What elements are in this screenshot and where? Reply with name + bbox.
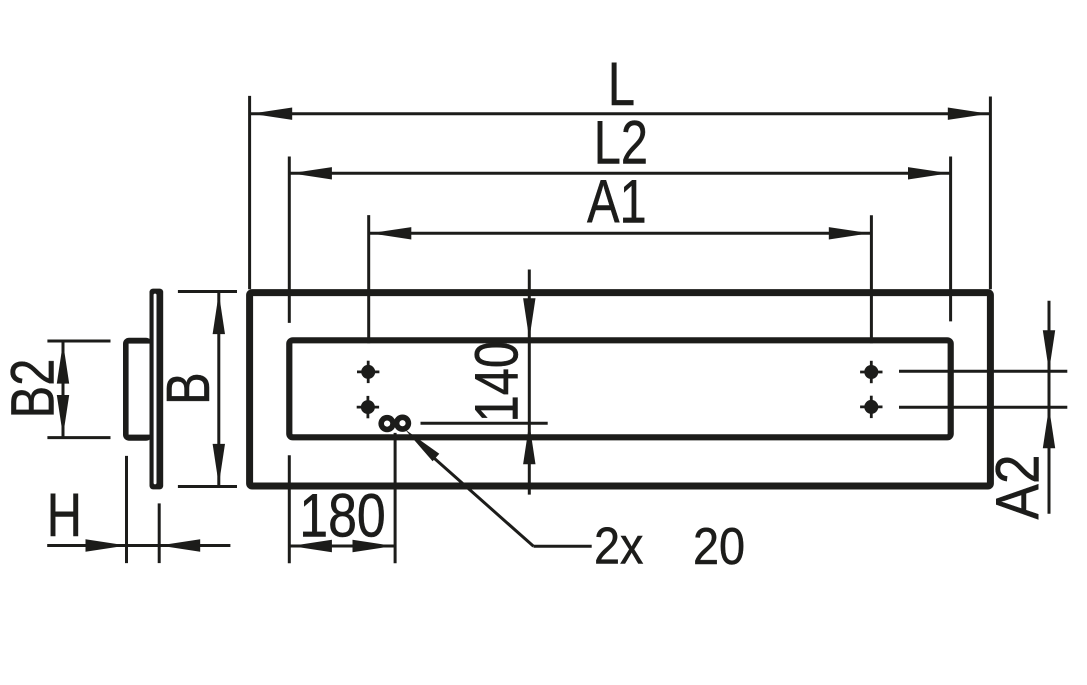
dimension A2 line: [1048, 301, 1051, 514]
dimension B extension lines: [178, 290, 237, 293]
svg-text:2x: 2x: [594, 517, 644, 575]
dimension L line: [250, 112, 991, 115]
svg-text:B2: B2: [0, 359, 67, 419]
side view housing block: [123, 338, 152, 441]
svg-text:H: H: [47, 481, 82, 549]
svg-text:B: B: [154, 372, 222, 405]
dimension 140 line: [528, 270, 531, 495]
svg-text:180: 180: [299, 481, 386, 549]
dimension B2 line: [62, 341, 65, 438]
dimension B2 extension lines: [47, 340, 110, 343]
dimension L2 extension lines: [288, 157, 291, 323]
dimension A2 extension lines: [899, 370, 1067, 373]
dimension A1 extension lines: [367, 215, 370, 343]
dimension L2 line: [289, 172, 950, 175]
svg-text:20: 20: [693, 518, 745, 576]
twin cable-entry holes: [378, 415, 395, 432]
svg-text:A1: A1: [587, 167, 647, 235]
leader line to cable holes: [405, 429, 440, 461]
dimension H line: [47, 544, 230, 547]
dimension B line: [217, 292, 220, 487]
dimension H extension lines: [125, 456, 128, 563]
front view inner cutout rectangle: [289, 340, 950, 437]
svg-text:A2: A2: [984, 455, 1052, 520]
mounting hole top-left: [357, 361, 379, 383]
dimension L extension lines: [248, 96, 251, 289]
dimension 180 extension lines: [288, 455, 291, 563]
dimension 140 extension line: [421, 422, 548, 425]
side view front panel bar: [150, 289, 164, 490]
dimension A1 line: [369, 232, 872, 235]
svg-text:140: 140: [462, 341, 530, 422]
dimension 180 line: [289, 545, 395, 548]
mounting hole bottom-right: [860, 396, 882, 418]
front view outer panel rectangle: [250, 293, 991, 486]
mounting hole bottom-left: [357, 396, 379, 418]
mounting hole top-right: [860, 361, 882, 383]
